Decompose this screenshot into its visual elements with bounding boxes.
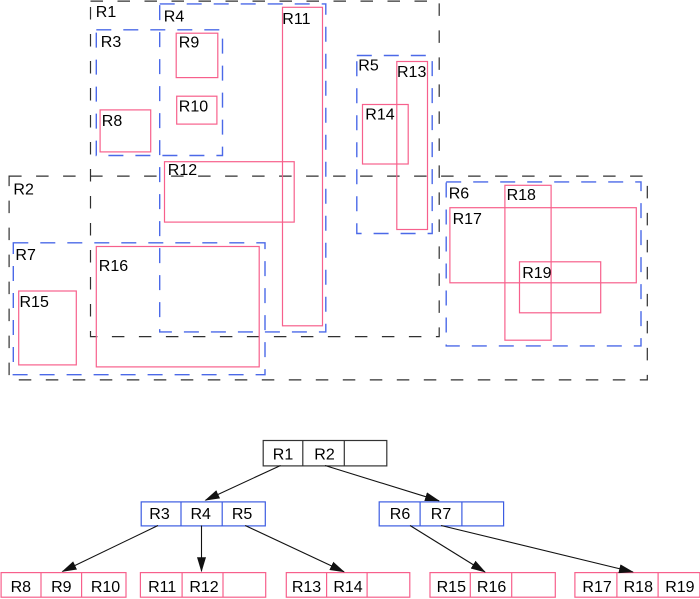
R5 blue dashed rect (357, 56, 432, 234)
tree node box R6|R7 (379, 502, 503, 526)
R17 pink rect (450, 208, 636, 283)
svg-text:R11: R11 (148, 579, 176, 596)
R19 pink rect (520, 262, 601, 313)
R2 black dashed rect (9, 176, 647, 380)
svg-text:R1: R1 (96, 4, 117, 21)
R15 pink rect (19, 291, 77, 365)
arrow R5 to leaf R13R14 (245, 526, 344, 572)
svg-text:R12: R12 (189, 579, 218, 596)
R16 pink rect (96, 247, 259, 367)
tree leaf box R15|R16 (430, 573, 555, 598)
svg-text:R15: R15 (437, 579, 466, 596)
R14 pink rect (363, 105, 409, 165)
R11 pink rect (283, 7, 323, 326)
svg-text:R13: R13 (292, 579, 321, 596)
arrow R4 to leaf R11R12 (201, 526, 203, 572)
tree leaf box R11|R12 (140, 573, 265, 598)
svg-text:R9: R9 (51, 579, 72, 596)
svg-text:R5: R5 (232, 506, 253, 523)
R13 pink rect (397, 62, 428, 230)
svg-text:R3: R3 (149, 506, 170, 523)
svg-text:R13: R13 (397, 64, 426, 81)
svg-text:R18: R18 (507, 187, 536, 204)
svg-text:R7: R7 (431, 506, 452, 523)
svg-text:R10: R10 (91, 579, 120, 596)
svg-text:R14: R14 (365, 106, 394, 123)
R7 blue dashed rect (13, 243, 265, 375)
svg-text:R19: R19 (522, 265, 551, 282)
R18 pink rect (505, 185, 551, 340)
tree leaf box R8|R9|R10 (1, 573, 126, 598)
svg-text:R2: R2 (13, 181, 34, 198)
svg-text:R7: R7 (15, 247, 36, 264)
svg-text:R16: R16 (477, 579, 506, 596)
R4 blue dashed rect (160, 4, 326, 332)
svg-text:R9: R9 (179, 35, 200, 52)
svg-text:R8: R8 (102, 113, 123, 130)
svg-text:R3: R3 (101, 34, 122, 51)
svg-text:R2: R2 (314, 446, 335, 463)
R1 black dashed rect (91, 1, 440, 337)
R12 pink rect (165, 162, 295, 222)
svg-text:R18: R18 (624, 579, 653, 596)
R9 pink rect (176, 33, 218, 77)
R10 pink rect (177, 96, 217, 124)
R3 blue dashed rect (96, 30, 222, 156)
svg-text:R11: R11 (282, 11, 310, 28)
svg-text:R16: R16 (99, 258, 128, 275)
svg-text:R10: R10 (179, 99, 208, 116)
tree node box R3|R4|R5 (141, 502, 265, 526)
arrow R7 to leaf R17R18R19 (441, 526, 633, 573)
svg-text:R14: R14 (333, 579, 362, 596)
svg-text:R4: R4 (190, 506, 211, 523)
svg-text:R8: R8 (11, 579, 32, 596)
svg-text:R6: R6 (449, 186, 470, 203)
tree leaf box R13|R14 (286, 573, 410, 598)
arrow R6 to leaf R15R16 (410, 526, 485, 573)
tree leaf box R17|R18|R19 (575, 573, 700, 598)
svg-text:R17: R17 (453, 211, 482, 228)
tree root node box R1|R2 (263, 441, 387, 466)
arrow R1 to node R3R4R5 (206, 466, 281, 501)
svg-text:R1: R1 (273, 446, 294, 463)
svg-text:R19: R19 (665, 579, 694, 596)
svg-text:R17: R17 (582, 579, 611, 596)
R6 blue dashed rect (446, 182, 641, 346)
svg-text:R15: R15 (20, 294, 49, 311)
svg-text:R4: R4 (164, 8, 185, 25)
arrow R2 to node R6R7 (325, 466, 439, 501)
R8 pink rect (100, 110, 151, 152)
svg-text:R5: R5 (358, 58, 379, 75)
arrow R3 to leaf R8R9R10 (63, 526, 159, 572)
svg-text:R6: R6 (390, 506, 411, 523)
svg-text:R12: R12 (168, 162, 197, 179)
